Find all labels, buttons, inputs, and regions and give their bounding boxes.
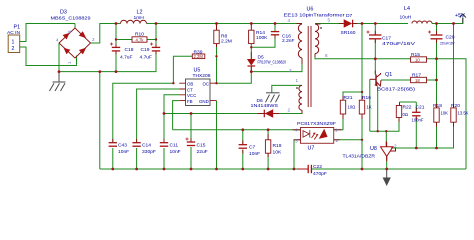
svg-text:C19: C19 bbox=[141, 47, 150, 53]
wire R18 column upper bbox=[436, 59, 438, 108]
wire C21 bottom lead bbox=[415, 117, 417, 148]
lead R20 bottom bbox=[453, 122, 455, 126]
ground primary bbox=[50, 72, 66, 91]
svg-text:OB: OB bbox=[187, 82, 193, 87]
svg-text:C20: C20 bbox=[446, 35, 455, 41]
lead D5 anode bbox=[250, 52, 252, 59]
label R14 bbox=[256, 30, 268, 41]
junction (216.5,83.2) bbox=[215, 82, 217, 84]
wire C15 column bbox=[190, 114, 192, 142]
pin stubs red overlays bbox=[113, 24, 454, 162]
svg-text:CT: CT bbox=[187, 87, 193, 92]
capacitor C19 bbox=[150, 43, 160, 51]
junction (164,169) bbox=[163, 168, 166, 171]
wire R20 column from rail bbox=[453, 24, 455, 108]
wire Q1 emitter riser bbox=[377, 87, 379, 132]
wire aux pin1 to ground bbox=[272, 85, 302, 92]
lead C20 top bbox=[436, 31, 438, 35]
junction (251.3,47.3) bbox=[250, 46, 252, 48]
wire FB row2 to opto pin4 bbox=[173, 129, 301, 131]
resistor R10 bbox=[132, 37, 147, 42]
inductor L2 bbox=[121, 20, 147, 23]
capacitor C16 bbox=[271, 32, 279, 35]
svg-text:1N4148WS: 1N4148WS bbox=[251, 103, 279, 109]
label R21 bbox=[344, 95, 356, 110]
pin stub U7 pin4 bbox=[292, 129, 300, 131]
svg-text:10uH: 10uH bbox=[400, 15, 412, 21]
svg-text:10nF: 10nF bbox=[249, 151, 260, 157]
label C18 bbox=[120, 47, 134, 61]
label L2 bbox=[134, 10, 145, 22]
pin lead TL431 cathode bbox=[385, 142, 387, 147]
svg-text:GND: GND bbox=[199, 99, 209, 104]
svg-text:PC817X3NSZ9F: PC817X3NSZ9F bbox=[297, 121, 336, 127]
bridge rectifier D3 bbox=[59, 28, 91, 58]
svg-text:MB6S_C108829: MB6S_C108829 bbox=[51, 16, 91, 22]
resistor R17 bbox=[411, 77, 427, 82]
pin stub transformer pin4 bbox=[297, 23, 303, 25]
resistor R18 bbox=[434, 108, 439, 122]
capacitor C18 bbox=[110, 43, 120, 51]
label C21 bbox=[412, 105, 425, 123]
lead R18 top bbox=[436, 104, 438, 108]
ground aux winding bbox=[266, 93, 280, 103]
wire C17 column top bbox=[374, 24, 376, 35]
svg-text:L4: L4 bbox=[404, 6, 410, 12]
wire R21 bottom to opto pin1 bbox=[334, 114, 343, 130]
svg-text:THX208: THX208 bbox=[193, 73, 211, 79]
svg-text:10nF: 10nF bbox=[170, 149, 181, 155]
junction (386.3,131.2) bbox=[385, 130, 387, 132]
label U5 bbox=[193, 68, 211, 80]
junction (116,39.5) bbox=[115, 38, 117, 40]
wire DC rail after L2 bbox=[147, 23, 303, 25]
IC U5 THX208 bbox=[179, 79, 216, 106]
pin labels D3 bbox=[56, 30, 95, 64]
wire OB line to C43 bbox=[113, 83, 174, 142]
lead C7 top bbox=[242, 141, 244, 145]
svg-text:C15: C15 bbox=[197, 143, 206, 149]
wire R8 bottom to R39 node bbox=[216, 44, 218, 57]
svg-text:330pF: 330pF bbox=[142, 149, 156, 155]
svg-text:4.7uF: 4.7uF bbox=[140, 55, 153, 61]
wire R16 column from rail bbox=[361, 24, 363, 101]
wire bridge pin2 to DC rail bbox=[91, 24, 121, 44]
lead D7 left bbox=[339, 23, 344, 25]
wire C20 top bbox=[436, 24, 438, 35]
wire OC riser bbox=[216, 56, 218, 83]
svg-text:1: 1 bbox=[296, 78, 299, 83]
wire C16 bottom to D5 top bbox=[251, 35, 275, 48]
label R39 bbox=[194, 49, 204, 59]
lead C43 top bbox=[112, 139, 114, 143]
lead D5 cathode bbox=[250, 66, 252, 70]
svg-text:470pF: 470pF bbox=[313, 171, 327, 177]
svg-text:3: 3 bbox=[295, 139, 298, 144]
svg-text:R16: R16 bbox=[362, 95, 371, 101]
pin labels U6 bbox=[288, 18, 331, 113]
svg-text:P1: P1 bbox=[14, 25, 21, 31]
lead C18 top bbox=[115, 44, 117, 47]
junction (377.7,131.2) bbox=[377, 130, 379, 132]
label D3 bbox=[51, 10, 91, 22]
wire opto pin3 to bus bbox=[294, 140, 301, 169]
svg-text:100nF: 100nF bbox=[412, 118, 424, 123]
capacitor C15 bbox=[186, 138, 196, 146]
junction (216.5,23.5) bbox=[215, 22, 218, 25]
label C17 bbox=[382, 36, 416, 48]
resistor R20 bbox=[451, 108, 456, 122]
svg-text:100K: 100K bbox=[256, 35, 268, 41]
junction (294,169) bbox=[293, 168, 296, 171]
svg-text:R21: R21 bbox=[344, 95, 353, 101]
wire secondary gnd row bbox=[315, 54, 466, 169]
svg-text:C11: C11 bbox=[170, 143, 179, 149]
lead R22 top bbox=[399, 103, 401, 106]
pin stub transformer pin6 bbox=[314, 54, 316, 57]
lead D7 right bbox=[353, 23, 358, 25]
svg-text:C22: C22 bbox=[313, 164, 322, 170]
label Q1 bbox=[377, 72, 415, 93]
resistor R19 bbox=[265, 140, 270, 153]
svg-text:R19: R19 bbox=[273, 143, 282, 149]
junction (242.8,169) bbox=[241, 168, 244, 171]
svg-text:AC IN: AC IN bbox=[7, 30, 21, 36]
label D7 bbox=[341, 13, 356, 36]
label R16 bbox=[362, 95, 372, 110]
label C19 bbox=[140, 47, 153, 61]
junction (116,23.5) bbox=[115, 22, 118, 25]
svg-text:22uF: 22uF bbox=[197, 149, 208, 155]
svg-text:4.7uF: 4.7uF bbox=[120, 55, 133, 61]
WIRES_SECONDARY bbox=[312, 18, 466, 170]
wire R10 right bbox=[147, 39, 156, 41]
wire opto cathode row L1 bbox=[370, 117, 399, 131]
pin labels U7 bbox=[295, 128, 339, 144]
svg-text:10K: 10K bbox=[273, 149, 282, 155]
label C15 bbox=[197, 143, 208, 155]
svg-text:2: 2 bbox=[12, 46, 15, 52]
wire C21 top lead bbox=[415, 102, 417, 112]
svg-text:C14: C14 bbox=[142, 143, 151, 149]
label R8 bbox=[221, 34, 232, 45]
wire R18 bottom lead bbox=[436, 122, 438, 148]
resistor R21 bbox=[340, 100, 345, 114]
wire C18 column bbox=[115, 24, 117, 48]
svg-text:2: 2 bbox=[336, 138, 339, 143]
label U6 bbox=[284, 7, 345, 19]
lead C19 top bbox=[155, 44, 157, 47]
lead R16 top bbox=[361, 96, 363, 100]
diode D6 bbox=[264, 109, 273, 117]
wire R10 left bbox=[116, 39, 132, 41]
junction (191,113.5) bbox=[190, 112, 193, 115]
lead C14 top bbox=[136, 139, 138, 143]
wire R16 bottom column to bus bbox=[361, 114, 363, 169]
connector P1 bbox=[8, 35, 20, 53]
pin stub U7 pin3 bbox=[294, 139, 301, 141]
svg-text:13.5K: 13.5K bbox=[458, 111, 469, 116]
lead R19 bottom bbox=[267, 153, 269, 157]
lead R22 bottom bbox=[398, 118, 400, 123]
diode D7 bbox=[344, 19, 353, 27]
junction (362,23.5) bbox=[361, 22, 364, 25]
svg-text:U5: U5 bbox=[194, 68, 201, 74]
resistor R14 bbox=[249, 24, 254, 44]
junction (436.5,148) bbox=[435, 147, 438, 150]
wire C17 bottom to gnd row bbox=[374, 39, 376, 58]
junction (216.5,56.3) bbox=[215, 55, 217, 57]
pin stub U7 pin1 bbox=[334, 129, 342, 131]
wire C11 bottom bbox=[163, 148, 165, 169]
diode D5 bbox=[247, 59, 256, 66]
wire opto pin2 row bbox=[334, 139, 362, 141]
junction (436.5,80) bbox=[435, 79, 438, 82]
shunt regulator U8 TL431 bbox=[381, 142, 396, 161]
pin stub transformer pin2 bbox=[301, 110, 303, 113]
wire R14 bottom bbox=[250, 44, 252, 48]
junction (242.8,129.8) bbox=[241, 128, 244, 131]
wire U5 GND riser bbox=[216, 101, 218, 169]
label R18 bbox=[433, 103, 448, 116]
wire R22 C21 top link bbox=[400, 101, 417, 103]
wire primary ground bus bbox=[59, 51, 156, 72]
capacitor C14 bbox=[132, 143, 140, 147]
svg-text:C18: C18 bbox=[125, 47, 134, 53]
wire C43 bottom bbox=[112, 148, 114, 169]
lead C19 bottom bbox=[155, 51, 157, 54]
label D5 bbox=[258, 55, 287, 65]
lead C20 bottom bbox=[436, 39, 438, 43]
wire TL431 ref row bbox=[391, 122, 454, 148]
svg-text:C21: C21 bbox=[416, 105, 425, 111]
wire C16 top riser bbox=[274, 24, 276, 32]
wire R19 top bbox=[267, 130, 269, 140]
wire rail L4 to +5V bbox=[432, 18, 463, 24]
wire C7 bottom bbox=[242, 150, 244, 169]
junction (362,92) bbox=[361, 91, 363, 93]
junction (116,71.6) bbox=[115, 70, 118, 73]
svg-text:10: 10 bbox=[415, 57, 420, 62]
lead R16 bottom bbox=[361, 114, 363, 119]
power +5V bbox=[460, 14, 466, 24]
lead C21 bottom bbox=[415, 117, 417, 121]
lead R18 bottom bbox=[436, 122, 438, 126]
wire C11 column bbox=[163, 114, 165, 143]
junction (362,169) bbox=[361, 168, 364, 171]
svg-text:18: 18 bbox=[415, 78, 420, 83]
junction (156,39.5) bbox=[155, 38, 157, 40]
ground secondary arrow bbox=[383, 169, 391, 186]
svg-text:VCC: VCC bbox=[187, 93, 196, 98]
lead R20 top bbox=[453, 104, 455, 108]
transformer U6 bbox=[296, 24, 322, 110]
lead C16 bottom bbox=[274, 35, 276, 39]
wire D7 cathode rail to L4 bbox=[353, 23, 408, 25]
svg-text:SR160: SR160 bbox=[341, 30, 356, 36]
svg-text:470uF/16V: 470uF/16V bbox=[382, 41, 416, 47]
svg-text:2.2M: 2.2M bbox=[194, 54, 204, 59]
svg-text:U7: U7 bbox=[308, 146, 315, 152]
wire transformer pin5 to D7 bbox=[315, 23, 344, 25]
svg-text:6: 6 bbox=[325, 53, 328, 58]
junction (191,169) bbox=[190, 168, 193, 171]
svg-text:2: 2 bbox=[394, 144, 397, 149]
resistor R39 bbox=[192, 54, 205, 59]
svg-text:U8: U8 bbox=[370, 146, 377, 152]
junction (436.5,58.8) bbox=[435, 57, 438, 60]
svg-text:5: 5 bbox=[328, 18, 331, 23]
svg-text:2.2M: 2.2M bbox=[221, 39, 232, 45]
svg-text:C17: C17 bbox=[382, 36, 391, 42]
lead C21 top bbox=[415, 108, 417, 112]
inductor L4 bbox=[412, 21, 432, 23]
svg-text:3: 3 bbox=[289, 68, 292, 73]
wire Q1 collector riser bbox=[374, 59, 376, 75]
label C16 bbox=[282, 34, 295, 45]
resistor R15 bbox=[411, 57, 427, 62]
lead C17 bottom bbox=[374, 39, 376, 43]
svg-text:10K: 10K bbox=[441, 111, 449, 116]
wire C7 top bbox=[242, 130, 244, 145]
resistor R8 bbox=[214, 24, 219, 48]
svg-text:R18: R18 bbox=[433, 103, 442, 109]
lead C15 top bbox=[190, 138, 192, 142]
svg-text:+5V: +5V bbox=[455, 13, 465, 19]
label C22 bbox=[313, 164, 327, 177]
wire R17 row bbox=[381, 79, 411, 81]
junction (375.3,58.8) bbox=[374, 57, 377, 60]
wire R17 right to R18 column bbox=[427, 79, 437, 81]
svg-text:2.2nF: 2.2nF bbox=[282, 38, 295, 44]
lead C7 bottom bbox=[242, 150, 244, 154]
junction (375.3,23.5) bbox=[374, 22, 377, 25]
svg-text:220uF/16V: 220uF/16V bbox=[440, 42, 455, 46]
svg-text:1K: 1K bbox=[367, 105, 372, 110]
capacitor C43 bbox=[109, 143, 117, 147]
resistor R22 bbox=[396, 106, 401, 118]
pin stub transformer pin5 bbox=[315, 23, 321, 25]
wire AC line1 P1 pin1 to rail bbox=[20, 24, 75, 42]
label R17 bbox=[412, 73, 421, 83]
label C43 bbox=[118, 143, 129, 155]
junction (156,23.5) bbox=[155, 22, 158, 25]
svg-text:C43: C43 bbox=[118, 143, 127, 149]
wire C19 column bbox=[155, 24, 157, 48]
lead C18 bottom bbox=[115, 51, 117, 54]
label L4 bbox=[400, 6, 412, 21]
svg-text:FB: FB bbox=[187, 99, 193, 104]
label R10 bbox=[135, 32, 144, 43]
svg-text:1: 1 bbox=[67, 61, 72, 64]
label U7 bbox=[297, 121, 336, 152]
pin stub transformer pin3 bbox=[301, 58, 303, 64]
svg-text:D3: D3 bbox=[60, 10, 67, 16]
label U8 bbox=[343, 146, 377, 160]
junction (251.3,23.5) bbox=[250, 22, 253, 25]
svg-text:EE13 10pinTransformer: EE13 10pinTransformer bbox=[284, 13, 345, 19]
svg-text:2: 2 bbox=[288, 108, 291, 113]
label R20 bbox=[451, 103, 469, 116]
label D6 bbox=[251, 98, 279, 109]
wire D5 node to transformer pin3 bbox=[251, 58, 302, 72]
svg-text:2: 2 bbox=[92, 37, 95, 42]
svg-text:10Ω: 10Ω bbox=[348, 105, 356, 110]
wire C20 bottom bbox=[436, 39, 438, 58]
lead C17 top bbox=[374, 31, 376, 35]
wire VCC line riser bbox=[164, 95, 179, 114]
junction (164,113.5) bbox=[163, 112, 166, 115]
capacitor C22 bbox=[297, 165, 311, 173]
svg-text:4.7k: 4.7k bbox=[136, 37, 145, 42]
optocoupler U7 bbox=[301, 128, 334, 144]
transistor Q1 bbox=[370, 73, 381, 87]
label C20 bbox=[440, 35, 455, 46]
junction (416.3,148) bbox=[415, 147, 418, 150]
svg-text:U6: U6 bbox=[307, 7, 314, 13]
svg-text:L2: L2 bbox=[137, 10, 143, 16]
junction (386.7,169) bbox=[385, 168, 388, 171]
wire OC to D5 node bbox=[217, 72, 252, 84]
svg-text:R20: R20 bbox=[451, 103, 460, 109]
label C11 bbox=[170, 143, 181, 155]
wire bridge pin3 riser bbox=[74, 24, 76, 29]
wire VCC row1 to aux winding pin2 bbox=[164, 110, 302, 114]
svg-text:D7: D7 bbox=[346, 13, 353, 19]
svg-text:BC817-25(6B): BC817-25(6B) bbox=[377, 87, 415, 93]
svg-text:R22: R22 bbox=[403, 105, 412, 111]
wire R22 top lead bbox=[399, 102, 401, 106]
WIRES_PRIMARY bbox=[20, 24, 302, 170]
label C7 bbox=[249, 145, 260, 157]
label R19 bbox=[273, 143, 282, 155]
capacitor C7 bbox=[239, 145, 247, 149]
svg-text:0Ω: 0Ω bbox=[403, 112, 408, 117]
svg-text:10nF: 10nF bbox=[118, 149, 129, 155]
lead D6 right bbox=[273, 113, 279, 115]
junction (453.5,23.5) bbox=[452, 22, 455, 25]
svg-text:4: 4 bbox=[56, 38, 59, 43]
junction (216.5,169) bbox=[215, 168, 218, 171]
svg-text:3: 3 bbox=[67, 30, 72, 33]
wire C14 bottom bbox=[136, 148, 138, 169]
wire C18 bottom bbox=[115, 51, 117, 71]
pin lead TL431 ref bbox=[391, 149, 396, 152]
pin lead TL431 anode bbox=[386, 156, 388, 161]
wire FB riser bbox=[173, 101, 180, 130]
junction (136.6,169) bbox=[135, 168, 138, 171]
wire bottom bus primary bbox=[100, 168, 297, 170]
wire C15 bottom bbox=[190, 147, 192, 169]
lead Q1 collector bbox=[374, 71, 376, 75]
junction (112.8,169) bbox=[111, 168, 114, 171]
wire R39 left to OB riser bbox=[173, 56, 192, 83]
junction (59,71.6) bbox=[58, 70, 61, 73]
wire AC line2 P1 pin2 to bridge bbox=[20, 47, 77, 66]
wire R19 bottom bbox=[267, 153, 269, 169]
lead R21 top bbox=[342, 96, 344, 100]
wire left riser to bottom bus bbox=[99, 72, 101, 169]
label R22 bbox=[403, 105, 412, 118]
junction (436.5,23.5) bbox=[435, 22, 438, 25]
capacitor C17 bbox=[367, 31, 382, 39]
svg-text:TL431A/DBZR: TL431A/DBZR bbox=[343, 154, 376, 160]
junction (268.1,169) bbox=[267, 168, 270, 171]
wire bottom bus secondary bbox=[312, 168, 466, 170]
lead R19 top bbox=[267, 134, 269, 140]
pin stub U7 pin2 bbox=[334, 139, 340, 141]
svg-text:C7: C7 bbox=[249, 145, 256, 151]
